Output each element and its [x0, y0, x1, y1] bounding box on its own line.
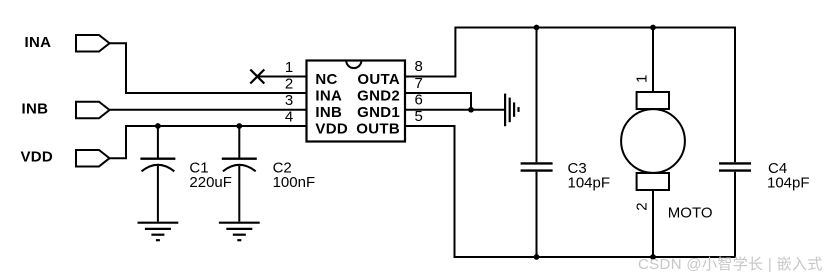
svg-text:INB: INB — [22, 101, 49, 118]
svg-text:6: 6 — [415, 92, 423, 109]
wire pin 6 GND1 — [405, 109, 504, 111]
wire net OUTB: pin 5 to bottom rail to C4 bottom — [405, 126, 735, 257]
junction bottom rail / C3 — [534, 254, 540, 260]
svg-text:INA: INA — [315, 88, 342, 105]
svg-text:INB: INB — [315, 104, 342, 121]
port INA — [76, 35, 110, 52]
svg-text:OUTB: OUTB — [356, 121, 400, 138]
svg-text:CSDN @小智学长 | 嵌入式: CSDN @小智学长 | 嵌入式 — [638, 255, 823, 273]
svg-text:1: 1 — [285, 59, 293, 76]
svg-text:1: 1 — [634, 75, 651, 83]
port VDD — [76, 150, 110, 167]
junction bottom rail / motor — [650, 254, 656, 260]
wire pin 1 stub — [257, 76, 306, 78]
svg-text:100nF: 100nF — [273, 174, 316, 191]
svg-text:3: 3 — [285, 92, 293, 109]
ground (GND1, rotated) — [505, 94, 518, 127]
capacitor C3 — [521, 28, 553, 258]
junction VDD/C1 — [155, 123, 161, 129]
wire pin 7 GND2 — [405, 93, 471, 110]
capacitor C1 — [140, 126, 175, 222]
ground (C1) — [138, 223, 179, 241]
svg-text:8: 8 — [415, 58, 423, 75]
svg-text:2: 2 — [634, 202, 651, 210]
svg-text:INA: INA — [25, 34, 52, 51]
capacitor C4 — [719, 163, 751, 170]
svg-text:OUTA: OUTA — [357, 71, 400, 88]
svg-text:GND1: GND1 — [357, 104, 400, 121]
port INB — [76, 102, 110, 119]
svg-text:4: 4 — [285, 109, 293, 126]
motor MOTO — [621, 28, 685, 258]
wire net OUTA: pin 8 to top rail to C4 top — [405, 28, 735, 163]
IC U1 body — [307, 61, 406, 142]
junction top rail / motor — [650, 25, 656, 31]
junction GND1/GND2 — [468, 107, 474, 113]
svg-text:GND2: GND2 — [357, 88, 400, 105]
no-connect X on pin 1 — [250, 70, 264, 84]
wire VDD to pin 4 — [110, 126, 307, 158]
svg-text:NC: NC — [315, 71, 337, 88]
junction VDD/C2 — [236, 123, 242, 129]
svg-text:104pF: 104pF — [767, 174, 810, 191]
IC notch — [346, 61, 361, 69]
wire INB to pin 3 — [110, 109, 307, 111]
junction top rail / C3 — [534, 25, 540, 31]
svg-text:2: 2 — [285, 75, 293, 92]
svg-text:220uF: 220uF — [189, 174, 232, 191]
svg-text:VDD: VDD — [21, 149, 54, 166]
svg-text:104pF: 104pF — [568, 174, 611, 191]
svg-text:MOTO: MOTO — [668, 204, 713, 221]
capacitor C2 — [222, 126, 257, 222]
wire INA to pin 2 — [110, 43, 307, 93]
ground (C2) — [219, 223, 260, 241]
svg-text:VDD: VDD — [315, 121, 348, 138]
